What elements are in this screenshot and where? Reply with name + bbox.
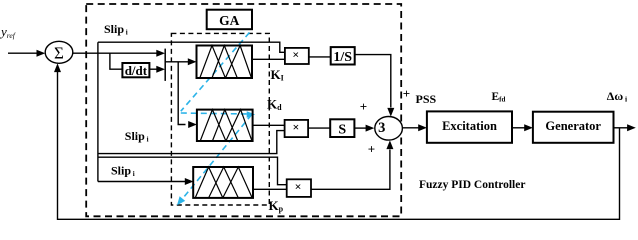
svg-text:Σ: Σ	[54, 43, 64, 62]
svg-text:3: 3	[378, 120, 385, 136]
wire slip to fuzzy block 3	[98, 181, 186, 183]
svg-text:+: +	[360, 99, 367, 114]
svg-text:×: ×	[292, 48, 299, 62]
wire fuzzy1 output (KI)	[252, 58, 285, 60]
svg-text:+: +	[403, 86, 410, 101]
wire input to summer	[8, 52, 38, 54]
svg-text:1/S: 1/S	[333, 50, 352, 65]
wire slip long line 1 to multiplier 2	[98, 131, 285, 154]
summing junction sigma	[45, 41, 73, 63]
svg-text:PSS: PSS	[416, 92, 437, 106]
fuzzy block 2 (membership functions)	[197, 110, 253, 141]
wire bar to fuzzy block 1	[165, 61, 189, 63]
wire slip long line 2 to multiplier 3	[98, 157, 287, 185]
block 1/S integrator	[331, 47, 355, 64]
wire fuzzy2 output (Kd)	[253, 124, 285, 126]
wire summing circle to Excitation	[402, 127, 418, 129]
fuzzy block 3 (membership functions)	[193, 167, 253, 198]
block Excitation	[427, 111, 512, 142]
wire branch to d/dt	[110, 53, 123, 69]
fuzzy block 1 (membership functions)	[197, 46, 253, 79]
wire summer output to bar	[73, 52, 157, 54]
svg-text:×: ×	[292, 120, 299, 134]
wire S to summing circle left	[354, 127, 366, 129]
GA tuning arrowhead right	[247, 111, 256, 118]
svg-text:Excitation: Excitation	[442, 119, 497, 133]
junction bar	[164, 49, 166, 81]
summing circle 3	[375, 117, 403, 141]
svg-text:Generator: Generator	[545, 119, 601, 133]
wire slip bypass to multiplier 1	[98, 42, 285, 52]
svg-text:×: ×	[295, 180, 302, 194]
svg-text:S: S	[338, 122, 346, 137]
block d/dt	[122, 63, 149, 77]
wire branch down to fuzzy block 2	[178, 62, 185, 125]
inner dashed box (fuzzy blocks group)	[171, 33, 269, 205]
wire feedback loop	[58, 71, 620, 219]
block S derivative	[330, 119, 354, 137]
outer dashed box (Fuzzy PID Controller boundary)	[86, 4, 401, 216]
svg-text:Fuzzy PID Controller: Fuzzy PID Controller	[419, 179, 525, 191]
multiplier 1	[285, 48, 309, 64]
wire Excitation to Generator	[512, 127, 525, 129]
multiplier 3	[287, 179, 311, 197]
wire fuzzy3 output (Kp)	[253, 188, 287, 190]
wire multiplier1 to integrator	[309, 56, 331, 58]
wire slip vertical trunk	[97, 42, 99, 181]
svg-text:d/dt: d/dt	[125, 63, 148, 78]
svg-text:+: +	[368, 141, 375, 156]
wire 1/S to summing circle top	[355, 55, 391, 108]
block Generator	[533, 112, 614, 143]
wire multiplier3 to summing circle bottom	[311, 150, 390, 190]
block GA	[207, 10, 252, 30]
GA tuning arrowhead bottom-left	[177, 196, 185, 205]
GA tuning line horizontal segment	[181, 113, 248, 114]
GA tuning line (cyan dashed diagonal from GA)	[181, 33, 250, 112]
svg-text:GA: GA	[219, 13, 240, 28]
wire d/dt output	[149, 68, 157, 70]
GA tuning line lower diagonal	[181, 115, 252, 201]
wire multiplier2 to S	[308, 127, 330, 129]
multiplier 2	[285, 120, 309, 137]
wire Generator output	[614, 127, 628, 129]
